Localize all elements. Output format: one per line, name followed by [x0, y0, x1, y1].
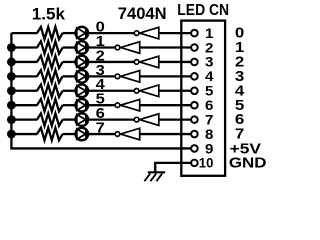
wire connector pin 10 to ground — [155, 163, 191, 172]
net label GND for pin 10 — [229, 155, 267, 171]
wire LED D3 to inverter U1 output — [88, 61, 134, 63]
LED D4 — [76, 70, 89, 83]
connector pin 8 — [191, 127, 214, 142]
svg-text:3: 3 — [205, 55, 213, 70]
junction on +5V bus row 3 — [7, 58, 16, 67]
wire inverter input to connector pin 8 — [140, 133, 192, 135]
resistor R6 1.5k — [37, 99, 63, 111]
connector pin 1 — [191, 26, 214, 41]
LED D2 — [76, 41, 89, 54]
node label bit 6 — [96, 106, 105, 122]
svg-text:LED CN: LED CN — [177, 2, 229, 19]
resistor R7 1.5k — [37, 113, 63, 125]
svg-text:7: 7 — [205, 112, 213, 127]
wire inverter input to connector pin 6 — [140, 104, 192, 106]
LED D7 — [76, 113, 89, 126]
node label bit 1 — [96, 34, 105, 50]
wire inverter input to connector pin 4 — [140, 75, 192, 77]
net label 7 for pin 8 — [235, 127, 244, 143]
net label 3 for pin 4 — [235, 69, 244, 85]
net label +5V for pin 9 — [230, 142, 262, 158]
resistor R4 1.5k — [37, 70, 63, 82]
connector pin 3 — [191, 55, 213, 70]
LED D6 — [76, 99, 89, 112]
wire inverter input to connector pin 2 — [140, 46, 192, 48]
wire bus to resistor R5 — [11, 90, 37, 92]
wire bus to resistor R7 — [11, 118, 37, 120]
connector label LED CN — [177, 2, 229, 19]
wire inverter input to connector pin 5 — [159, 90, 192, 92]
net label 0 for pin 1 — [235, 26, 244, 42]
wire resistor R6 to LED D6 — [63, 104, 76, 106]
svg-text:1.5k: 1.5k — [32, 6, 66, 24]
junction on +5V bus row 2 — [7, 43, 16, 52]
inverter gate U1 row 8 (7404N) — [115, 128, 140, 140]
LED D5 — [76, 84, 89, 97]
connector pin 7 — [191, 112, 213, 127]
svg-text:7404N: 7404N — [118, 5, 167, 23]
wire LED D5 to inverter U1 output — [88, 90, 134, 92]
resistor R3 1.5k — [37, 56, 63, 68]
junction on +5V bus row 8 — [7, 130, 16, 139]
inverter gate U1 row 3 (7404N) — [134, 56, 159, 68]
inverter gate U1 row 6 (7404N) — [115, 99, 140, 111]
wire LED D6 to inverter U1 output — [88, 104, 115, 106]
svg-text:10: 10 — [199, 156, 214, 171]
junction on +5V bus row 4 — [7, 72, 16, 81]
resistor R5 1.5k — [37, 85, 63, 97]
node label bit 0 — [96, 20, 105, 36]
inverter gate U1 row 1 (7404N) — [134, 27, 159, 39]
node label bit 5 — [96, 92, 105, 108]
wire LED D2 to inverter U1 output — [88, 46, 115, 48]
svg-text:7: 7 — [96, 120, 105, 136]
node label bit 2 — [96, 48, 105, 64]
connector pin 4 — [191, 69, 214, 84]
wire resistor R5 to LED D5 — [63, 90, 76, 92]
connector pin 10 — [191, 156, 213, 171]
connector pin 6 — [191, 98, 213, 113]
wire LED D1 to inverter U1 output — [88, 32, 134, 34]
LED D1 — [76, 27, 89, 40]
svg-text:7: 7 — [235, 127, 244, 143]
wire resistor R2 to LED D2 — [63, 46, 76, 48]
wire bus to resistor R4 — [11, 75, 37, 77]
connector pin 5 — [191, 84, 214, 99]
net label 5 for pin 6 — [235, 98, 244, 114]
wire inverter input to connector pin 3 — [159, 61, 192, 63]
wire bus to resistor R3 — [11, 61, 37, 63]
wire bus to resistor R8 — [11, 133, 37, 135]
svg-text:GND: GND — [229, 155, 267, 171]
wire bus to resistor R1 — [11, 32, 37, 34]
resistor R8 1.5k — [37, 128, 63, 140]
net +5V bus wire — [11, 33, 191, 148]
ground symbol — [144, 172, 165, 181]
junction on +5V bus row 6 — [7, 101, 16, 110]
wire resistor R4 to LED D4 — [63, 75, 76, 77]
wire LED D7 to inverter U1 output — [88, 118, 134, 120]
wire LED D8 to inverter U1 output — [88, 133, 115, 135]
wire inverter input to connector pin 1 — [159, 32, 192, 34]
resistor R2 1.5k — [37, 41, 63, 53]
inverter gate U1 row 7 (7404N) — [134, 114, 159, 126]
node label bit 7 — [96, 120, 105, 136]
net label 4 for pin 5 — [235, 83, 245, 99]
connector pin 2 — [191, 40, 213, 55]
net label 1 for pin 2 — [235, 40, 244, 56]
wire resistor R7 to LED D7 — [63, 118, 76, 120]
wire resistor R1 to LED D1 — [63, 32, 76, 34]
inverter gate U1 row 2 (7404N) — [115, 42, 140, 54]
svg-text:1: 1 — [205, 26, 214, 41]
wire bus to resistor R2 — [11, 46, 37, 48]
svg-text:4: 4 — [205, 69, 214, 84]
node label bit 3 — [96, 63, 105, 79]
svg-text:5: 5 — [205, 84, 214, 99]
LED D3 — [76, 56, 89, 69]
wire LED D4 to inverter U1 output — [88, 75, 115, 77]
svg-text:6: 6 — [205, 98, 213, 113]
connector pin 9 — [191, 141, 213, 156]
junction on +5V bus row 7 — [7, 115, 16, 124]
svg-text:8: 8 — [205, 127, 214, 142]
junction on +5V bus row 5 — [7, 86, 16, 95]
value label 1.5k — [32, 6, 66, 24]
svg-text:2: 2 — [205, 40, 213, 55]
wire bus to resistor R6 — [11, 104, 37, 106]
inverter gate U1 row 5 (7404N) — [134, 85, 159, 97]
connector LED CN body — [181, 21, 225, 176]
net label 2 for pin 3 — [235, 55, 244, 71]
node label bit 4 — [96, 77, 106, 93]
svg-text:9: 9 — [205, 141, 213, 156]
inverter gate U1 row 4 (7404N) — [115, 71, 140, 83]
net label 6 for pin 7 — [235, 112, 244, 128]
wire inverter input to connector pin 7 — [159, 118, 192, 120]
resistor R1 1.5k — [37, 27, 63, 39]
wire resistor R8 to LED D8 — [63, 133, 76, 135]
part label 7404N — [118, 5, 167, 23]
wire resistor R3 to LED D3 — [63, 61, 76, 63]
LED D8 — [76, 128, 89, 141]
